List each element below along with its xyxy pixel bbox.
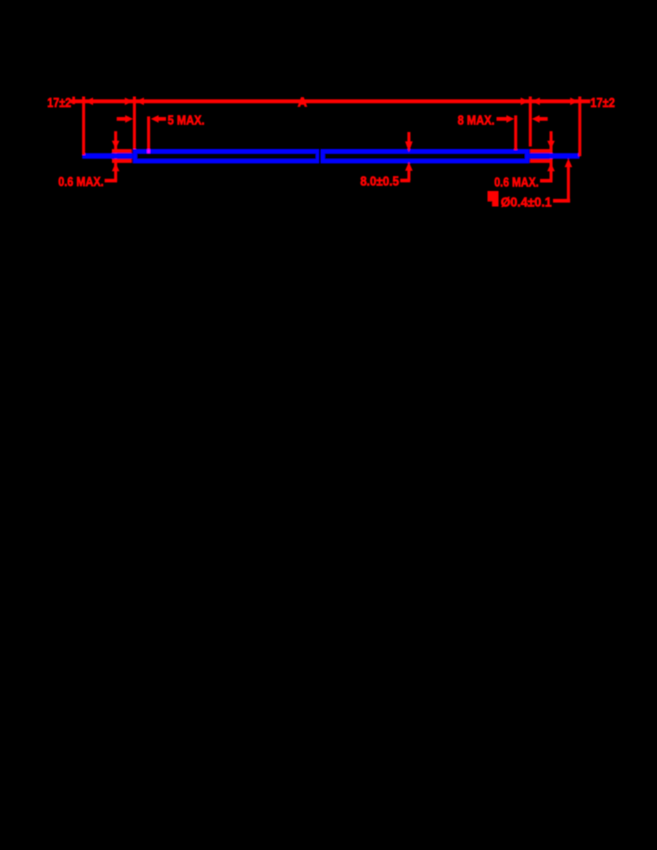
svg-text:A: A	[298, 95, 308, 110]
0.6 MAX right: top tangent bar	[530, 149, 553, 153]
8 MAX dimension line left tail	[497, 117, 508, 121]
wire under-layer: leader line 0.6 MAX right vertical	[550, 131, 553, 181]
arrow 5 MAX pointing right	[125, 115, 133, 123]
svg-text:17±2: 17±2	[47, 95, 71, 110]
centre diameter: down arrowhead over body	[407, 132, 410, 142]
wire under-layer: leader line 0.6 MAX left vertical	[114, 131, 117, 181]
arrow 5 MAX pointing left with tail	[151, 115, 159, 123]
arrow A, pointing left	[136, 98, 144, 106]
0.6 MAX left: up arrowhead	[112, 163, 120, 171]
svg-text:5 MAX.: 5 MAX.	[168, 112, 205, 127]
0.6 MAX right: elbow	[540, 179, 553, 183]
body segment 1 outline	[133, 149, 319, 163]
wire under-layer: extension line for 5 MAX inner edge	[147, 116, 150, 153]
magenta overlap where 5 MAX extension crosses body edge	[147, 149, 150, 153]
arrow 8 MAX pointing left with tail	[532, 115, 540, 123]
arrow 17±2 right, pointing right	[570, 98, 578, 106]
solid red marker box	[488, 191, 499, 207]
0.6 MAX right: up arrowhead	[547, 163, 555, 171]
arrow 8 MAX pointing right	[506, 115, 514, 123]
svg-text:0.6 MAX.: 0.6 MAX.	[58, 174, 103, 189]
svg-text:17±2: 17±2	[590, 95, 615, 110]
0.6 MAX left: top tangent bar	[112, 149, 132, 153]
arrow A, pointing right	[521, 98, 529, 106]
extension line at body right edge	[529, 97, 532, 147]
5 MAX dimension line left part	[117, 117, 126, 121]
0.6 MAX left: elbow	[105, 179, 118, 183]
svg-text:8 MAX.: 8 MAX.	[458, 112, 495, 127]
0.6 MAX right: down arrowhead	[547, 141, 555, 149]
extension line at left lead tip	[82, 97, 85, 156]
centre diameter: up arrowhead	[405, 162, 413, 171]
svg-text:8.0±0.5: 8.0±0.5	[360, 174, 399, 189]
centre diameter: elbow	[400, 179, 410, 183]
arrow 17±2 left, pointing left	[85, 98, 93, 106]
lead wire right (blue)	[529, 153, 579, 159]
0.6 MAX left: bottom tangent bar	[112, 159, 132, 163]
main dimension line	[70, 99, 590, 103]
tick at start of dimension line	[72, 97, 75, 105]
arrow 17±2 left, pointing right	[125, 98, 133, 106]
extension line at right lead tip	[578, 97, 581, 157]
svg-text:0.6 MAX.: 0.6 MAX.	[494, 175, 539, 190]
lead diameter leader: horizontal	[553, 199, 570, 203]
extension line at body left edge	[133, 97, 136, 150]
extension line for 8 MAX inner edge	[514, 115, 517, 150]
lead diameter leader: up arrowhead at lead underside	[565, 158, 573, 167]
lead wire left (blue)	[82, 153, 133, 159]
arrow 17±2 right, pointing left	[532, 98, 540, 106]
body segment 2 outline	[321, 149, 530, 163]
0.6 MAX left: down arrowhead	[112, 141, 120, 149]
0.6 MAX right: bottom tangent bar	[530, 159, 553, 163]
svg-text:Ø0.4±0.1: Ø0.4±0.1	[501, 194, 552, 209]
